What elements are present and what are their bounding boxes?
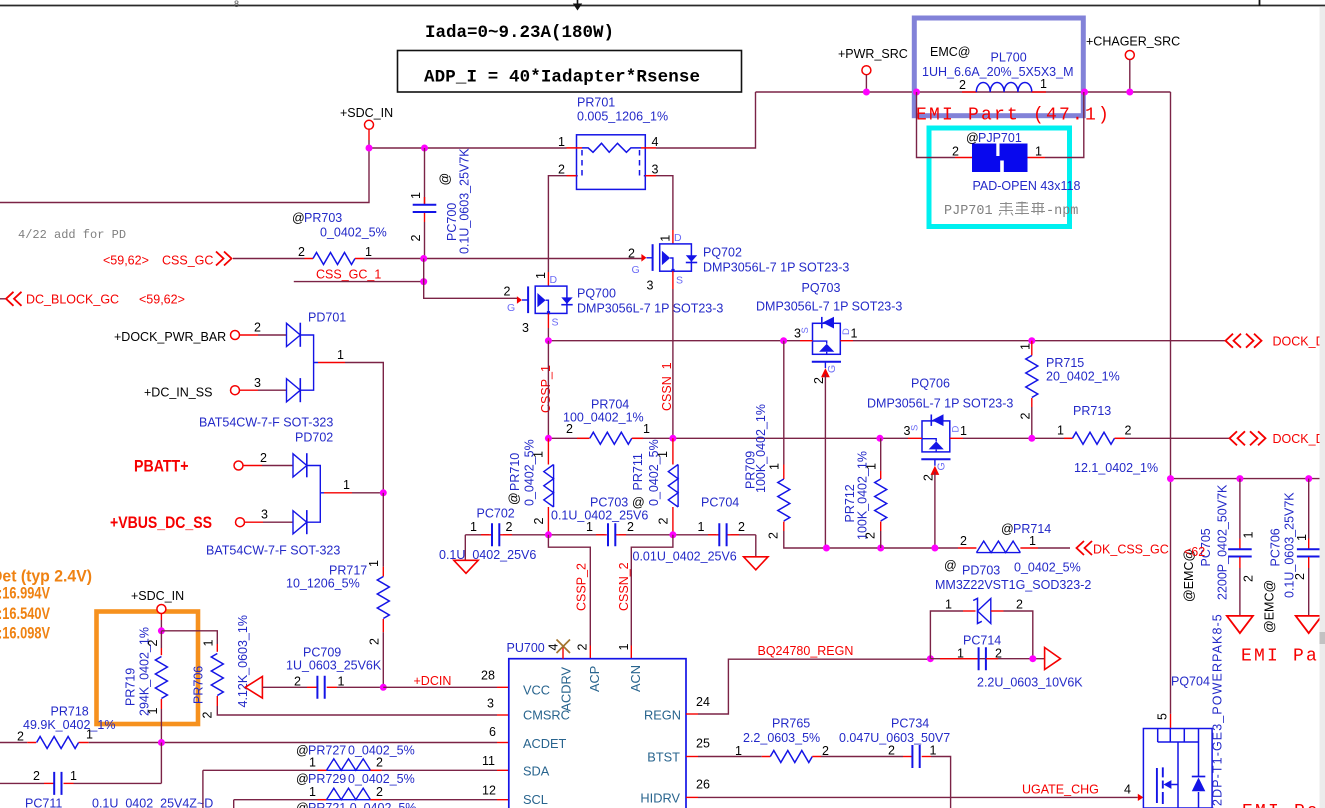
junction	[366, 145, 373, 152]
svg-text:1: 1	[337, 348, 344, 362]
svg-text:2: 2	[201, 712, 215, 719]
highlight purple box EMI	[914, 18, 1083, 116]
wire VCC row	[383, 686, 509, 688]
junction	[158, 739, 165, 746]
svg-text:2: 2	[260, 451, 267, 465]
svg-text:@: @	[296, 744, 309, 758]
svg-text:100K_0402_1%: 100K_0402_1%	[754, 404, 768, 493]
wire +CHAGER_SRC vertical	[1170, 92, 1172, 714]
svg-text:PR719: PR719	[124, 668, 138, 706]
svg-text:PR715: PR715	[1046, 356, 1084, 370]
svg-text:2: 2	[1016, 598, 1023, 612]
svg-text:4/22 add for PD: 4/22 add for PD	[18, 228, 126, 242]
svg-text:72DP-T1-GE3_POWERPAK8-5: 72DP-T1-GE3_POWERPAK8-5	[1211, 613, 1225, 808]
svg-text:PQ706: PQ706	[911, 377, 950, 391]
svg-text:2: 2	[576, 644, 590, 651]
svg-text:PD702: PD702	[295, 431, 333, 445]
svg-text:S: S	[676, 274, 683, 286]
svg-text::16.098V: :16.098V	[0, 624, 50, 643]
resistor PR711	[631, 438, 678, 535]
junction	[421, 145, 428, 152]
svg-text:2: 2	[368, 638, 382, 645]
svg-text:PC706: PC706	[1269, 528, 1283, 566]
svg-text:DMP3056L-7 1P SOT23-3: DMP3056L-7 1P SOT23-3	[703, 261, 849, 275]
wire PQ703 pin2 down to rail	[824, 374, 826, 548]
svg-text:@: @	[1001, 522, 1014, 536]
svg-text:1: 1	[735, 744, 742, 758]
svg-text:20_0402_1%: 20_0402_1%	[1046, 370, 1120, 384]
svg-text:100_0402_1%: 100_0402_1%	[563, 411, 644, 425]
svg-text:2: 2	[738, 520, 745, 534]
junction	[545, 531, 552, 538]
svg-text:@: @	[438, 173, 452, 186]
junction	[823, 545, 830, 552]
junction	[669, 531, 676, 538]
wire cap row y534.8	[465, 534, 756, 536]
IC PU700 charger controller	[481, 641, 710, 808]
svg-text:28: 28	[481, 669, 495, 683]
svg-text:1: 1	[309, 785, 316, 799]
wire CSSP_1 vertical	[547, 341, 549, 439]
wire PQ700 source to CSSP_1 row	[547, 328, 549, 341]
svg-text:1: 1	[470, 520, 477, 534]
diode PD703 zener	[930, 559, 1091, 659]
svg-text:PR717: PR717	[329, 564, 367, 578]
svg-text:PQ702: PQ702	[703, 246, 742, 260]
svg-text:0.1U_0603_25V7K: 0.1U_0603_25V7K	[1283, 492, 1297, 598]
note PJP701 green paint	[944, 202, 1078, 220]
power arrow right	[1045, 648, 1061, 670]
pin ACDRV no-connect	[547, 640, 571, 659]
svg-text:DOCK_D: DOCK_D	[1273, 335, 1325, 349]
svg-text:@: @	[966, 131, 979, 145]
node +DC_IN_SS	[144, 376, 287, 400]
svg-text:1: 1	[698, 520, 705, 534]
transistor PQ700	[504, 272, 724, 335]
svg-text:@EMC@: @EMC@	[1263, 580, 1277, 633]
svg-text:CSS_GC_1: CSS_GC_1	[316, 268, 381, 282]
power arrow left	[245, 677, 262, 699]
svg-text:1UH_6.6A_20%_5X5X3_M: 1UH_6.6A_20%_5X5X3_M	[922, 65, 1074, 79]
junction	[1167, 475, 1174, 482]
resistor PR703	[292, 211, 387, 265]
svg-text:3: 3	[647, 279, 654, 293]
capacitor PC709	[262, 646, 383, 699]
node +DOCK_PWR_BAR	[114, 321, 287, 345]
svg-text:PC711: PC711	[25, 797, 62, 808]
svg-text:REGN: REGN	[644, 708, 681, 723]
svg-text:UGATE_CHG: UGATE_CHG	[1022, 783, 1099, 797]
wire PR706 to CMSRC	[217, 706, 509, 715]
wire PR709 to rail corner	[784, 531, 958, 548]
svg-text:1: 1	[338, 675, 345, 689]
wire CSSN_2	[631, 535, 673, 659]
svg-text:+DOCK_PWR_BAR: +DOCK_PWR_BAR	[114, 330, 226, 344]
svg-text:PC703: PC703	[590, 496, 628, 510]
svg-text:1: 1	[1035, 145, 1042, 159]
wire HIDRV UGATE_CHG	[686, 783, 1143, 802]
svg-text:0.005_1206_1%: 0.005_1206_1%	[577, 110, 668, 124]
svg-text:2: 2	[33, 769, 40, 783]
node +SDC_IN top	[340, 106, 393, 148]
svg-text:0_0402_5%: 0_0402_5%	[348, 772, 415, 786]
svg-text:PQ700: PQ700	[577, 287, 616, 301]
wire CSSN_1 vertical	[672, 289, 674, 438]
capacitor PC705	[1182, 479, 1256, 616]
svg-text:2: 2	[532, 518, 546, 525]
junction	[1081, 89, 1088, 96]
svg-text:D: D	[951, 426, 962, 433]
svg-text:1: 1	[659, 235, 673, 242]
scrollbar thumb	[1320, 632, 1325, 644]
sheet top border	[0, 0, 1325, 9]
jumper PJP701	[952, 131, 1080, 193]
resistor PR715	[1019, 341, 1120, 439]
junction	[877, 545, 884, 552]
node +SDC_IN lower	[131, 589, 184, 631]
svg-text:2: 2	[657, 518, 671, 525]
junction	[545, 435, 552, 442]
svg-text:1: 1	[367, 560, 381, 567]
svg-text:+DC_IN_SS: +DC_IN_SS	[144, 386, 212, 400]
capacitor PC734	[821, 717, 951, 808]
capacitor PC711	[0, 743, 213, 808]
junction	[931, 545, 938, 552]
capacitor PC700	[409, 148, 472, 259]
svg-text:PC704: PC704	[701, 496, 739, 510]
junction	[780, 337, 787, 344]
svg-text:DMP3056L-7 1P SOT23-3: DMP3056L-7 1P SOT23-3	[867, 397, 1013, 411]
svg-text:PR713: PR713	[1073, 404, 1111, 418]
resistor PR718	[0, 705, 115, 749]
svg-text:2: 2	[995, 647, 1002, 661]
svg-text:DC_BLOCK_GC: DC_BLOCK_GC	[26, 293, 119, 307]
wire CSSP_1 row y340.7	[548, 340, 1225, 342]
svg-text:DOCK_D: DOCK_D	[1273, 432, 1325, 446]
svg-text:2: 2	[812, 377, 826, 384]
svg-text:PR718: PR718	[51, 705, 89, 719]
svg-text:PR729: PR729	[308, 772, 346, 786]
svg-text:PD703: PD703	[962, 564, 1000, 578]
svg-text:1: 1	[86, 728, 93, 742]
svg-text:D: D	[550, 274, 558, 286]
svg-text:PC734: PC734	[891, 717, 929, 731]
svg-text:<62: <62	[1184, 545, 1205, 559]
svg-text:2.2U_0603_10V6K: 2.2U_0603_10V6K	[977, 676, 1083, 690]
note orange voltages	[0, 567, 92, 643]
svg-text:G: G	[632, 264, 640, 276]
svg-text:4: 4	[1124, 783, 1131, 797]
wire PR701 pin3 down to PQ702 drain	[656, 176, 673, 230]
svg-text:2: 2	[566, 422, 573, 436]
svg-text:12: 12	[482, 784, 496, 798]
highlight orange box	[97, 612, 199, 725]
resistor PR709	[744, 341, 790, 539]
wire REGN to arrow	[930, 658, 1044, 660]
svg-text:CSSP_1: CSSP_1	[539, 365, 553, 413]
svg-text:HIDRV: HIDRV	[640, 791, 680, 806]
svg-text:PL700: PL700	[991, 51, 1027, 65]
svg-text:2: 2	[409, 235, 423, 242]
transistor PQ703	[756, 281, 902, 384]
svg-text:PR703: PR703	[304, 211, 342, 225]
svg-text:ACP: ACP	[587, 666, 602, 692]
svg-text:ACDRV: ACDRV	[559, 666, 574, 711]
resistor PR704	[563, 398, 650, 445]
svg-text:6: 6	[489, 725, 496, 739]
svg-text:2: 2	[627, 520, 634, 534]
svg-text:@: @	[296, 772, 309, 786]
transistor PQ706	[867, 377, 1013, 482]
svg-text::16.994V: :16.994V	[0, 584, 50, 603]
svg-text:D: D	[674, 232, 682, 244]
svg-text:@: @	[632, 496, 645, 510]
svg-text:S: S	[800, 327, 811, 333]
svg-text:SCL: SCL	[523, 792, 548, 807]
svg-text:1: 1	[202, 640, 216, 647]
svg-text:ADP_I = 40*Iadapter*Rsense: ADP_I = 40*Iadapter*Rsense	[424, 68, 700, 88]
svg-text:EMI Part (47.1): EMI Part (47.1)	[916, 106, 1111, 126]
capacitor PC704	[633, 496, 746, 564]
svg-text:0_0402_5%: 0_0402_5%	[523, 439, 537, 506]
svg-text:1: 1	[1057, 424, 1064, 438]
wire ACDET row	[89, 742, 509, 744]
resistor PR714	[958, 522, 1081, 575]
svg-text:3: 3	[261, 508, 268, 522]
svg-text:1: 1	[643, 422, 650, 436]
svg-text:2: 2	[864, 532, 878, 539]
inductor PL700	[922, 45, 1074, 92]
wire CSSN row y438.3	[548, 437, 1229, 439]
svg-text:ACDET: ACDET	[523, 736, 567, 751]
svg-text:ACN: ACN	[628, 665, 643, 692]
svg-text:2: 2	[628, 247, 635, 261]
wire CSSP_2	[548, 535, 590, 659]
svg-text:0_0402_5%: 0_0402_5%	[320, 226, 387, 240]
svg-text:DMP3056L-7 1P SOT23-3: DMP3056L-7 1P SOT23-3	[756, 300, 902, 314]
svg-text:1: 1	[930, 744, 937, 758]
svg-text:@: @	[944, 559, 957, 573]
svg-text:1: 1	[146, 708, 160, 715]
svg-text:PJP701: PJP701	[944, 204, 993, 219]
svg-text:1: 1	[865, 463, 879, 470]
svg-text:1: 1	[1040, 77, 1047, 91]
scrollbar track	[1320, 7, 1325, 808]
svg-text:8: 8	[234, 0, 239, 9]
net label DK_CSS_GC	[1077, 541, 1169, 557]
svg-text:11: 11	[482, 754, 495, 768]
svg-text:2: 2	[504, 285, 511, 299]
svg-text:2: 2	[888, 744, 895, 758]
svg-text:S: S	[552, 317, 559, 329]
wire PR701 pin4 to top rail	[656, 92, 756, 148]
wire branch to PR706	[161, 631, 217, 644]
diode PD702	[206, 431, 350, 558]
svg-text:1: 1	[957, 647, 964, 661]
svg-text:1: 1	[558, 135, 565, 149]
svg-text:3: 3	[522, 321, 529, 335]
svg-text:1: 1	[1295, 534, 1309, 541]
svg-text:25: 25	[696, 737, 710, 751]
svg-text:2: 2	[1019, 413, 1033, 420]
resistor PR713	[1057, 404, 1158, 475]
svg-text:PD701: PD701	[308, 311, 346, 325]
junction	[1028, 435, 1035, 442]
wire top rail y92	[756, 91, 1171, 93]
svg-text:3: 3	[487, 697, 494, 711]
svg-text:PQ703: PQ703	[802, 281, 841, 295]
svg-text:G: G	[936, 462, 948, 470]
capacitor PC714	[940, 634, 1083, 690]
net label CSS_GC	[103, 252, 232, 268]
svg-text:1: 1	[1242, 532, 1256, 539]
svg-text:PR706: PR706	[192, 666, 206, 704]
junction	[1236, 475, 1243, 482]
junction	[863, 89, 870, 96]
svg-text:D: D	[841, 328, 852, 335]
svg-text:BTST: BTST	[647, 750, 680, 765]
svg-text:4.12K_0603_1%: 4.12K_0603_1%	[236, 615, 250, 707]
svg-text:5: 5	[1156, 713, 1170, 720]
svg-text:1: 1	[532, 451, 546, 458]
svg-text:SDA: SDA	[523, 764, 550, 779]
highlight cyan box	[929, 128, 1070, 227]
svg-text:1: 1	[409, 192, 423, 199]
transistor PQ704	[1143, 613, 1224, 808]
junction	[380, 684, 387, 691]
svg-text:PC714: PC714	[963, 634, 1001, 648]
svg-text:2: 2	[376, 756, 383, 770]
junction	[669, 435, 676, 442]
svg-text:<59,62>: <59,62>	[103, 254, 149, 268]
junction	[1305, 475, 1312, 482]
svg-text:0.1U_0603_25V7K: 0.1U_0603_25V7K	[458, 148, 472, 254]
svg-text:PR710: PR710	[508, 453, 522, 491]
svg-text:1: 1	[1019, 343, 1033, 350]
svg-text:PJP701: PJP701	[978, 131, 1022, 145]
svg-text:@: @	[296, 801, 309, 808]
svg-text:EMI Part: EMI Part	[1242, 802, 1325, 808]
wire PD702 out	[324, 492, 383, 494]
svg-text:Iada=0~9.23A(180W): Iada=0~9.23A(180W)	[425, 23, 614, 43]
svg-text:2200P_0402_50V7K: 2200P_0402_50V7K	[1216, 484, 1230, 600]
svg-text:2: 2	[17, 730, 24, 744]
svg-text:DK_CSS_GC: DK_CSS_GC	[1093, 543, 1169, 557]
junction	[913, 89, 920, 96]
svg-text:PR701: PR701	[577, 96, 615, 110]
svg-text:10_1206_5%: 10_1206_5%	[286, 577, 360, 591]
svg-text:2: 2	[254, 321, 261, 335]
svg-text:PAD-OPEN 43x118: PAD-OPEN 43x118	[973, 179, 1081, 193]
capacitor PC706	[1263, 479, 1321, 633]
svg-text:3: 3	[652, 163, 659, 177]
wire REGN net	[698, 659, 930, 714]
wire to PQ700 gate	[424, 259, 517, 299]
svg-text:49.9K_0402_1%: 49.9K_0402_1%	[23, 718, 115, 732]
svg-text:1: 1	[309, 756, 316, 770]
svg-text:24: 24	[696, 695, 710, 709]
capacitor PC702	[439, 507, 536, 563]
resistor PR727	[203, 744, 509, 808]
svg-text:PR711: PR711	[631, 453, 645, 490]
junction	[158, 627, 165, 634]
wire +SDC_IN feed left	[0, 148, 369, 203]
wire PR701 pin2 down to PQ700 drain	[548, 176, 566, 272]
svg-text:3: 3	[254, 376, 261, 390]
svg-text:4: 4	[547, 644, 561, 651]
svg-text:@: @	[507, 492, 521, 505]
svg-text:4: 4	[652, 135, 659, 149]
junction	[420, 278, 427, 285]
svg-text:1: 1	[945, 598, 952, 612]
junction	[380, 489, 387, 496]
svg-text:CSSP_2: CSSP_2	[575, 563, 589, 611]
svg-text:-npm: -npm	[1046, 204, 1078, 219]
svg-text:1: 1	[365, 245, 372, 259]
svg-text:MM3Z22VST1G_SOD323-2: MM3Z22VST1G_SOD323-2	[935, 578, 1091, 592]
svg-text:2: 2	[960, 534, 967, 548]
svg-text:EMC@: EMC@	[930, 45, 970, 59]
svg-text:2: 2	[1125, 424, 1132, 438]
junction	[876, 435, 883, 442]
svg-text:2.2_0603_5%: 2.2_0603_5%	[743, 731, 820, 745]
wire CSS_GC_1 to PQ702 gate	[364, 258, 642, 260]
svg-text:1: 1	[70, 769, 77, 783]
resistor PR729	[234, 772, 509, 808]
node +CHAGER_SRC	[1086, 35, 1180, 93]
junction	[1126, 89, 1133, 96]
svg-text:G: G	[507, 302, 515, 314]
junction	[1028, 337, 1035, 344]
svg-text:CSS_GC: CSS_GC	[162, 254, 213, 268]
svg-text:2: 2	[294, 675, 301, 689]
cursor arrow marker	[573, 0, 582, 11]
svg-text:CSSN_1: CSSN_1	[660, 362, 674, 411]
ground PC705	[1227, 616, 1253, 633]
junction	[420, 255, 427, 262]
svg-text:G: G	[826, 365, 838, 373]
ground PC702	[454, 535, 478, 574]
svg-text:1: 1	[343, 478, 350, 492]
svg-text:1: 1	[534, 272, 548, 279]
svg-text:1: 1	[768, 463, 782, 470]
svg-text:0.1U_0402_25V4Z~D: 0.1U_0402_25V4Z~D	[92, 797, 213, 808]
svg-text:2: 2	[959, 78, 966, 92]
svg-text:2: 2	[298, 245, 305, 259]
svg-text:+SDC_IN: +SDC_IN	[131, 589, 184, 603]
svg-text:PBATT+: PBATT+	[134, 457, 189, 476]
junction	[1029, 655, 1036, 662]
net label DOCK row2	[1230, 431, 1325, 446]
svg-text:0_0402_5%: 0_0402_5%	[1014, 561, 1081, 575]
wire jumper loop	[917, 92, 1084, 158]
svg-text:PR704: PR704	[591, 398, 629, 412]
transistor PQ702	[628, 232, 849, 293]
svg-text::16.540V: :16.540V	[0, 604, 50, 623]
svg-text:2: 2	[506, 520, 513, 534]
svg-text:PC702: PC702	[477, 507, 515, 521]
svg-text:1: 1	[656, 451, 670, 458]
svg-text:DMP3056L-7 1P SOT23-3: DMP3056L-7 1P SOT23-3	[577, 302, 723, 316]
svg-text:+VBUS_DC_SS: +VBUS_DC_SS	[110, 513, 212, 532]
wire right rail y478.6	[1171, 478, 1325, 480]
svg-text:2: 2	[952, 145, 959, 159]
svg-text:EMI Part: EMI Part	[1241, 647, 1325, 667]
svg-text:PC709: PC709	[303, 646, 341, 660]
junction	[927, 655, 934, 662]
resistor PR706	[192, 615, 251, 718]
net label DC_BLOCK_GC	[0, 292, 185, 307]
